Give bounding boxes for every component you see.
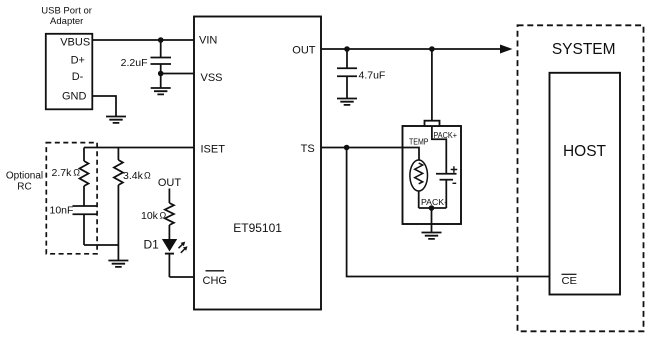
svg-text:3.4k: 3.4k (123, 170, 144, 182)
svg-text:PACK+: PACK+ (434, 131, 458, 140)
svg-text:Ω: Ω (73, 168, 80, 178)
svg-text:CE: CE (562, 275, 578, 287)
svg-text:2.2uF: 2.2uF (121, 57, 148, 69)
svg-text:RC: RC (17, 182, 31, 193)
svg-text:OUT: OUT (158, 177, 182, 189)
svg-text:D-: D- (72, 71, 84, 83)
svg-text:HOST: HOST (563, 143, 607, 160)
svg-text:CHG: CHG (203, 275, 227, 287)
svg-text:Ω: Ω (160, 211, 167, 221)
svg-text:2.7k: 2.7k (52, 167, 73, 179)
svg-text:PACK-: PACK- (421, 198, 447, 207)
svg-text:D1: D1 (144, 238, 160, 252)
svg-text:VIN: VIN (199, 35, 217, 47)
svg-text:ET95101: ET95101 (233, 221, 282, 235)
svg-text:D+: D+ (71, 54, 85, 66)
svg-text:USB Port or: USB Port or (41, 5, 92, 16)
svg-text:TS: TS (301, 143, 315, 155)
svg-text:ISET: ISET (201, 143, 226, 155)
svg-text:Optional: Optional (6, 170, 43, 181)
svg-text:10nF: 10nF (50, 205, 74, 217)
svg-text:VSS: VSS (201, 72, 223, 84)
svg-text:OUT: OUT (292, 44, 316, 56)
svg-text:4.7uF: 4.7uF (359, 70, 386, 82)
svg-text:GND: GND (62, 90, 87, 102)
svg-text:Adapter: Adapter (50, 16, 83, 27)
svg-text:VBUS: VBUS (60, 36, 90, 48)
svg-text:TEMP: TEMP (409, 137, 429, 146)
svg-text:Ω: Ω (144, 170, 151, 180)
svg-text:10k: 10k (141, 210, 159, 222)
svg-text:SYSTEM: SYSTEM (552, 41, 616, 58)
